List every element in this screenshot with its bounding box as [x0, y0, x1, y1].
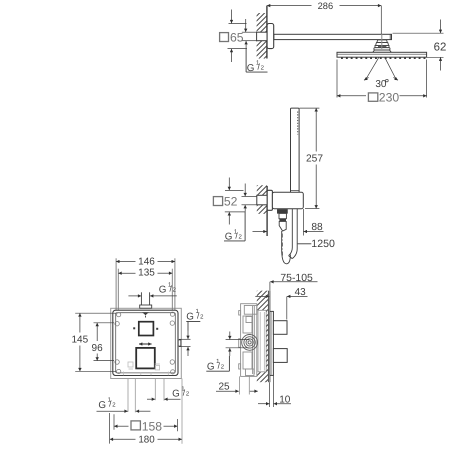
G12 right underline — [186, 321, 200, 323]
svg-text:1250: 1250 — [311, 238, 335, 250]
G12 side lines to port — [226, 339, 250, 341]
dim 96 ext top — [94, 322, 115, 324]
G12 label side — [207, 358, 225, 372]
wall hatch side — [257, 291, 269, 311]
supply elbow circles — [242, 335, 258, 351]
G12 top arrow left — [128, 295, 141, 297]
G12 right arrow up — [187, 347, 189, 356]
dim 10 arrow left — [258, 403, 269, 405]
dim 135 ext left — [117, 269, 119, 310]
dim 135 ext right — [171, 269, 173, 310]
trim plate edge-on — [270, 311, 274, 375]
dim 96 line — [96, 323, 98, 341]
dim 43 arrow right part — [287, 295, 308, 297]
dim 88 arrow right — [304, 231, 324, 233]
G12 BL underline-arrow — [97, 410, 128, 412]
dim 145 line — [79, 313, 81, 332]
dim 286 right extension — [380, 6, 382, 44]
dim 62 ext bottom — [427, 56, 444, 58]
arrow up flange bottom mid — [228, 212, 230, 224]
dim 62 arrow bottom — [440, 58, 442, 71]
arrow down flange top mid — [228, 178, 230, 191]
dim 1250 leader — [298, 243, 312, 245]
hose centerline — [281, 234, 283, 257]
rough-in box behind (gray) — [111, 308, 182, 378]
ball joint collar — [376, 43, 389, 46]
bottom port A ext lines — [127, 379, 129, 412]
dim 25 arrow 2 — [250, 390, 258, 392]
dim 10 ext lines — [269, 382, 271, 407]
G12 label handshower — [225, 228, 243, 242]
G12 label front-BR — [172, 385, 190, 399]
dim 230 line — [337, 95, 366, 97]
G12 side leader vertical — [228, 356, 230, 371]
wall face lines side — [267, 291, 269, 383]
G12 side arrow down — [229, 332, 231, 340]
square symbol 52 — [213, 197, 222, 206]
arrow down to flange top — [231, 10, 233, 24]
arrow up nipple bottom mid — [244, 205, 246, 212]
arrow down to nipple top — [245, 19, 247, 32]
handle lower side — [273, 349, 287, 363]
G12 label front-right — [186, 308, 204, 322]
dim 286 ext through arm — [381, 34, 383, 49]
dim 146 line — [116, 261, 135, 263]
dim 257 line — [315, 108, 317, 151]
nipple square65 — [257, 32, 267, 41]
spray line right — [385, 57, 396, 78]
arm end inner line — [389, 34, 391, 39]
screw circles — [115, 312, 175, 374]
G12 label top-shower — [247, 60, 265, 74]
wall hatch top — [257, 13, 267, 59]
ball joint knurl ring — [375, 46, 389, 48]
ext line flange top mid — [225, 189, 244, 191]
svg-text:180: 180 — [138, 435, 155, 446]
ext line nipple top mid — [242, 196, 257, 198]
dim 158 ext left — [113, 414, 115, 430]
ball joint neck — [377, 40, 387, 43]
svg-text:96: 96 — [92, 343, 104, 354]
lower handle square — [136, 348, 155, 369]
wall face line — [266, 6, 268, 59]
hose down right line1 — [289, 209, 293, 256]
dim 88 arrow left — [253, 231, 267, 233]
right port ticks — [178, 340, 181, 346]
dim 88 ext right — [302, 209, 304, 236]
hose band dark — [279, 219, 286, 222]
svg-text:145: 145 — [71, 335, 88, 346]
dim 158 ext right — [176, 419, 178, 431]
svg-text:88: 88 — [311, 222, 323, 233]
G12 side underline — [206, 370, 229, 372]
shower arm — [274, 34, 392, 39]
upper handle square — [139, 322, 154, 336]
hose down right line2 — [292, 209, 297, 259]
head plate — [337, 52, 427, 57]
port B arrow left-side — [147, 398, 155, 400]
dim 25 ext lines gray — [239, 376, 241, 394]
port A arrow right-side — [136, 410, 151, 412]
bottom port B ext lines — [154, 379, 156, 401]
hose loop left — [282, 231, 291, 264]
dim 180 ext left — [109, 413, 111, 444]
square symbol 230 — [368, 93, 377, 101]
square symbol 65 — [220, 33, 229, 42]
dim 158 line — [114, 425, 128, 427]
dim 62 arrow top — [440, 20, 442, 34]
svg-text:158: 158 — [142, 420, 163, 434]
svg-text:75-105: 75-105 — [280, 273, 313, 284]
dim 146 ext right — [174, 258, 176, 309]
dim 43 ext — [286, 296, 288, 319]
svg-text:10: 10 — [279, 395, 291, 406]
flange — [267, 24, 274, 49]
arrow up to flange bottom — [231, 49, 233, 62]
dim 25 arrow 1 — [216, 390, 239, 392]
ext line flange bottom — [228, 48, 248, 50]
G12 label front-top — [159, 281, 177, 295]
G12 underline mid — [224, 240, 245, 242]
G12 top arrow right (label leader) — [150, 295, 177, 297]
ball joint flare — [373, 50, 392, 52]
G12 right arrow down — [187, 331, 189, 340]
top marking triangle — [142, 312, 149, 315]
head inner line — [337, 53, 427, 55]
handshower stick — [291, 108, 300, 193]
dim 145 ext bottom — [75, 370, 116, 372]
square symbol 158 — [131, 421, 140, 430]
top port base — [140, 305, 152, 308]
svg-text:230: 230 — [379, 90, 400, 104]
G12 label front-BL — [98, 397, 116, 411]
spray arrow right — [393, 77, 398, 80]
nozzle dots — [341, 58, 425, 60]
dim 145 ext top — [75, 312, 116, 314]
wall face line mid — [266, 186, 268, 236]
port B arrow right (label leader) — [164, 398, 180, 400]
nipple square52 — [257, 195, 268, 205]
svg-text:25: 25 — [218, 381, 230, 392]
ext line nipple bottom mid — [242, 204, 257, 206]
dim 257 ext top — [300, 107, 320, 109]
ext line flange bottom mid — [225, 211, 246, 213]
side dots — [133, 327, 135, 329]
arrow down nipple top mid — [244, 184, 246, 197]
dim 10 arrow right + underline — [274, 403, 291, 405]
wall hatch mid — [257, 185, 267, 214]
trim plate outer — [113, 310, 178, 375]
dim 180 ext right — [181, 379, 183, 444]
svg-text:62: 62 — [434, 41, 447, 53]
svg-text:257: 257 — [306, 154, 323, 165]
holder body — [272, 192, 303, 208]
ext line nipple bottom — [242, 40, 257, 42]
hose nut dark — [277, 209, 287, 213]
hose fitting — [279, 213, 286, 218]
svg-text:52: 52 — [224, 195, 238, 209]
hose cone — [279, 221, 286, 231]
svg-text:43: 43 — [295, 287, 307, 298]
flange mid — [267, 190, 272, 210]
dim 135 line — [118, 272, 135, 274]
G12 underline — [246, 71, 267, 73]
G12 leader vertical — [245, 49, 247, 73]
dim 75-105 ext — [269, 282, 271, 291]
svg-text:286: 286 — [318, 1, 334, 11]
ext line nipple top — [242, 31, 257, 33]
G12 right leader vertical — [187, 322, 189, 331]
through-wall sleeve — [258, 310, 266, 372]
mid arrow line — [139, 343, 152, 345]
dim 180 line — [110, 438, 136, 440]
dim 257 ext bottom — [305, 208, 319, 210]
dim 230 ext right — [426, 60, 428, 98]
G12 side arrow up — [229, 348, 231, 356]
spray line left — [367, 57, 379, 78]
rough-in box side (gray) — [239, 304, 257, 377]
svg-text:30: 30 — [375, 79, 387, 90]
svg-text:65: 65 — [230, 31, 244, 45]
hose end cut — [289, 256, 293, 259]
handle upper side — [273, 321, 287, 335]
faint mark left — [124, 362, 169, 375]
top port stub — [140, 292, 142, 305]
dim 146 ext left — [115, 258, 117, 309]
trim plate inner — [116, 313, 176, 373]
dim 286 line — [267, 5, 312, 7]
dim 75-105 arrow — [270, 281, 317, 283]
dim 230 ext left — [336, 60, 338, 98]
spray arrow left — [364, 77, 369, 80]
arrow up to nipple bottom (G12 leader) — [245, 41, 247, 49]
ext line flange top — [229, 23, 247, 25]
ball joint dome — [374, 48, 390, 50]
G12 leader vertical mid — [244, 212, 246, 241]
dim 62 ext top — [393, 32, 444, 34]
svg-text:135: 135 — [138, 268, 155, 279]
svg-text:146: 146 — [138, 257, 155, 268]
dim 96 ext bottom — [94, 360, 115, 362]
dim 43 arrow left part — [255, 295, 269, 297]
stick spray dots — [297, 112, 299, 135]
